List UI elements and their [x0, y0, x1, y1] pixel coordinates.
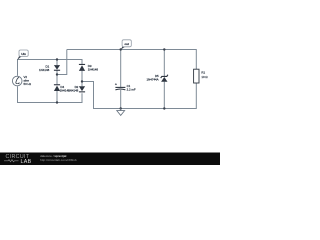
wire zener branch bottom — [163, 82, 165, 109]
resistor R1 — [194, 69, 209, 83]
svg-text:50 Hz: 50 Hz — [24, 82, 32, 86]
svg-text:Uin: Uin — [21, 52, 26, 56]
wire right bridge midpoint to ground rail — [82, 82, 196, 109]
ground — [117, 109, 125, 116]
svg-text:1N4148: 1N4148 — [88, 68, 99, 72]
wire D1 cathode to D4 cathode — [56, 70, 58, 84]
footer CircuitLab logo — [4, 154, 32, 165]
node junction capacitor on ground rail — [120, 107, 122, 109]
svg-text:out: out — [125, 42, 129, 46]
node label Uin callout — [17, 50, 28, 60]
diode D3 — [79, 64, 98, 72]
svg-text:http://circuitlab.com/c8fttvb: http://circuitlab.com/c8fttvb — [40, 158, 77, 162]
wire D1 anode lead — [56, 60, 58, 66]
node junction zener on out rail — [163, 48, 165, 50]
node label out callout — [121, 40, 132, 50]
svg-text:10 Ω: 10 Ω — [201, 75, 208, 79]
wire capacitor branch bottom — [120, 90, 122, 109]
wire out upper rail — [67, 50, 197, 70]
svg-text:2.2 mF: 2.2 mF — [127, 88, 136, 92]
wire D4 anode lead — [56, 91, 58, 103]
wire out tap from bridge — [57, 50, 67, 75]
svg-text:LAB: LAB — [21, 159, 32, 165]
node junction D1-D4 cathodes out tap — [56, 73, 58, 75]
diode D1 — [39, 65, 60, 72]
footer bar — [0, 153, 220, 166]
wire V2 bottom to rail — [18, 86, 83, 102]
svg-text:1N4148: 1N4148 — [68, 88, 79, 92]
node junction D1 anode on Uin rail — [56, 58, 58, 60]
wire capacitor branch top — [120, 50, 122, 88]
node junction zener on ground rail — [163, 107, 165, 109]
wire Uin top rail — [18, 60, 83, 76]
svg-text:1N4148: 1N4148 — [39, 68, 50, 72]
node junction D3-D2 anodes — [81, 80, 83, 82]
wire zener branch top — [163, 50, 165, 77]
diode D2 — [68, 85, 85, 92]
node junction capacitor on out rail — [120, 48, 122, 50]
svg-text:1N4744A: 1N4744A — [147, 78, 159, 82]
svg-text:+: + — [115, 83, 117, 87]
diode D4 — [54, 84, 70, 92]
node junction D4 anode on bottom rail — [56, 101, 58, 103]
zener diode D5 — [147, 74, 168, 82]
voltage source V2 — [12, 75, 31, 86]
wire D3 anode to D2 anode — [81, 71, 83, 86]
capacitor C1 — [115, 83, 136, 92]
